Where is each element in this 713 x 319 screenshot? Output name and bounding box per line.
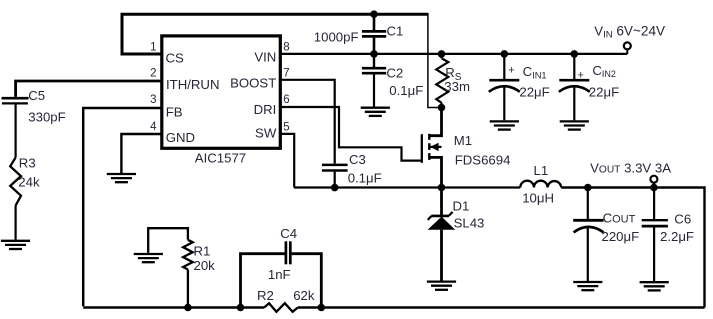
capacitor COUT [573,188,639,282]
capacitor C4 [241,226,322,308]
capacitor CIN2 [559,54,619,120]
junction CIN2 top [571,50,579,58]
svg-text:24k: 24k [18,175,40,190]
junction C4 right leg [318,304,326,312]
wire VOUT rail [561,188,704,308]
svg-text:L1: L1 [534,163,549,178]
pin 3 FB [150,94,183,119]
capacitor C5 [2,88,66,158]
svg-text:C3: C3 [349,152,366,167]
pin 1 CS [150,41,184,65]
svg-text:22μF: 22μF [589,84,619,99]
wire SW rail [294,186,520,188]
junction RS top [438,50,446,58]
wire BOOST pin7 to C3 [279,80,335,164]
ground for R1 [134,254,163,262]
svg-text:M1: M1 [454,133,472,148]
capacitor C1 [314,14,404,54]
junction C3 bottom on SW rail [331,184,339,192]
svg-text:20k: 20k [194,258,216,273]
junction COUT top [584,184,592,192]
svg-text:1: 1 [150,41,156,53]
wire FB pin3 to bottom rail [83,108,161,306]
svg-text:+: + [508,64,514,76]
svg-text:7: 7 [283,67,289,79]
svg-text:0.1μF: 0.1μF [348,171,382,186]
wire VIN rail [279,53,627,55]
svg-text:D1: D1 [453,199,470,214]
ground below CIN2 [560,121,589,129]
svg-text:CS: CS [166,51,185,66]
ground below C6 [640,282,669,290]
svg-text:8: 8 [283,41,289,53]
svg-text:FB: FB [166,104,183,119]
ground below R3 [1,241,30,249]
svg-text:10μH: 10μH [522,191,554,206]
wire SW pin5 down to SW rail [280,134,294,188]
svg-text:C1: C1 [387,23,404,38]
svg-text:5: 5 [283,122,289,134]
svg-text:22μF: 22μF [519,84,549,99]
svg-text:DRI: DRI [254,102,277,117]
pin 8 VIN [254,41,289,64]
resistor RS [436,54,470,108]
svg-text:R3: R3 [19,156,36,171]
svg-text:33m: 33m [444,79,470,94]
svg-text:SW: SW [255,125,277,140]
svg-text:GND: GND [166,130,195,145]
wire CS sense line down to RS bottom [428,13,440,108]
wire bottom feedback rail right [298,306,705,308]
svg-text:R2: R2 [257,288,274,303]
junction C1/C2 on VIN rail [370,50,378,58]
svg-text:AIC1577: AIC1577 [195,151,246,166]
junction M1 source / D1 on SW rail [438,184,446,192]
capacitor C6 [642,188,694,282]
inductor L1 [520,163,561,206]
svg-text:+: + [578,70,584,82]
svg-text:C6: C6 [674,211,691,226]
capacitor CIN1 [489,54,550,120]
svg-text:C5: C5 [28,88,45,103]
svg-text:2.2μF: 2.2μF [660,229,694,244]
terminal VOUT [590,161,671,188]
pin 6 DRI [254,94,290,117]
junction C4 left leg [237,304,245,312]
junction CIN1 top [501,50,509,58]
svg-text:COUT: COUT [603,211,636,226]
ground below COUT [573,282,602,290]
wire bottom feedback rail left [83,306,264,308]
svg-text:2: 2 [150,67,156,79]
svg-text:3: 3 [150,94,156,106]
junction C6/VOUT terminal [650,184,658,192]
svg-text:C4: C4 [280,226,297,241]
wire GND pin4 to ground [121,134,160,173]
svg-text:VIN: VIN [254,50,276,65]
ground below CIN1 [490,121,519,129]
junction R1 bottom [184,304,192,312]
svg-text:SL43: SL43 [454,216,485,231]
capacitor C2 [362,54,423,107]
pin 2 ITH/RUN [150,67,219,92]
junction RS bottom / CS sense node [438,104,446,112]
IC U1 AIC1577 body [162,36,280,166]
diode D1 SL43 [428,188,485,281]
ground below C2 [361,108,390,116]
svg-text:ITH/RUN: ITH/RUN [166,77,219,92]
svg-text:FDS6694: FDS6694 [455,153,511,168]
pin 5 SW [255,122,290,141]
svg-text:C2: C2 [386,65,403,80]
wire CS loop pin1 to top rail [122,14,428,54]
svg-text:6: 6 [283,94,289,106]
capacitor C3 [322,152,382,186]
svg-text:4: 4 [150,121,157,133]
svg-text:62k: 62k [293,288,315,303]
terminal VIN [594,23,665,54]
resistor R3 [10,156,40,240]
ground below GND pin [107,174,136,182]
svg-text:1000pF: 1000pF [314,30,359,45]
transistor M1 FDS6694 [422,108,511,188]
pin 4 GND [150,121,195,145]
pin 7 BOOST [230,67,289,90]
svg-text:220μF: 220μF [602,229,640,244]
svg-text:R1: R1 [194,243,211,258]
junction C1 top on CS rail [370,10,378,18]
wire ITH/RUN pin2 to C5 [16,81,161,97]
resistor R1 [148,228,215,307]
ground below D1 [427,282,456,290]
svg-text:1nF: 1nF [268,267,291,282]
wire DRI pin6 to gate [279,107,422,161]
svg-text:0.1μF: 0.1μF [389,83,423,98]
svg-text:BOOST: BOOST [230,76,276,91]
svg-text:330pF: 330pF [28,109,65,124]
resistor R2 [257,288,315,312]
